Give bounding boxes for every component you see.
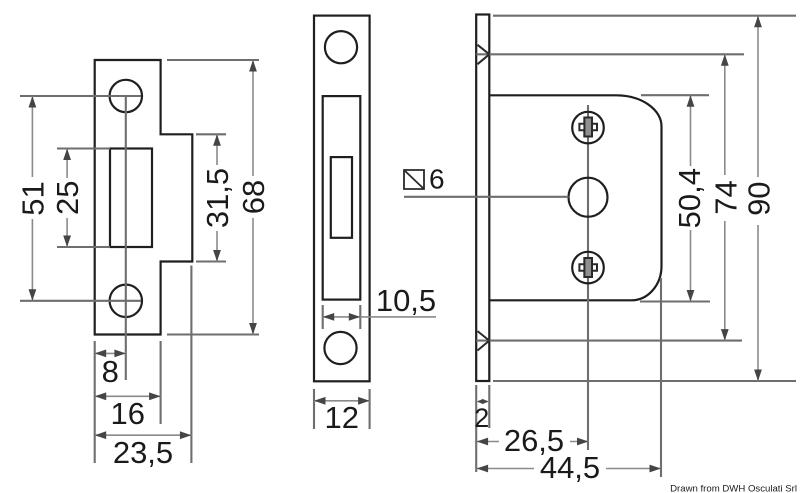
svg-text:8: 8 bbox=[102, 354, 119, 389]
svg-text:6: 6 bbox=[429, 164, 445, 195]
square-6 label bbox=[404, 170, 424, 189]
dim 8 line bbox=[95, 352, 126, 354]
strike plate outline bbox=[95, 60, 193, 335]
recess slot bbox=[323, 96, 361, 300]
ext bottom for 74 bbox=[476, 340, 742, 342]
ext rect right for 12 bbox=[369, 389, 371, 429]
dim 16 line bbox=[95, 395, 161, 397]
svg-text:10,5: 10,5 bbox=[376, 283, 436, 318]
dim 90 line bbox=[757, 16, 759, 177]
inner latch window bbox=[331, 157, 352, 238]
ext top for 74 bbox=[476, 53, 744, 55]
hole bottom bbox=[324, 332, 356, 364]
dim 2 arrows bbox=[478, 401, 488, 403]
center line bbox=[125, 96, 127, 380]
svg-text:68: 68 bbox=[236, 180, 271, 214]
ext plate left bottom bbox=[94, 341, 96, 463]
ext plate left bottom bbox=[475, 385, 477, 472]
svg-text:31,5: 31,5 bbox=[200, 168, 235, 228]
svg-text:90: 90 bbox=[742, 181, 777, 215]
svg-text:44,5: 44,5 bbox=[540, 450, 600, 485]
hole top bbox=[325, 31, 357, 63]
svg-text:2: 2 bbox=[474, 403, 489, 433]
dim 44,5 line bbox=[477, 468, 534, 470]
latch slot bbox=[110, 149, 152, 248]
dim 12 line bbox=[314, 400, 370, 402]
ext plate right short bbox=[488, 385, 490, 428]
svg-text:74: 74 bbox=[708, 180, 743, 214]
hole bottom bbox=[110, 285, 142, 317]
dim 51 line bbox=[31, 96, 33, 177]
svg-text:51: 51 bbox=[16, 181, 51, 215]
mark arrow top bbox=[478, 45, 490, 64]
ext tab right bottom bbox=[190, 266, 192, 464]
ext rect left for 12 bbox=[313, 389, 315, 429]
svg-text:12: 12 bbox=[324, 400, 358, 435]
ext slot right for 10,5 bbox=[359, 305, 361, 329]
leader line to spindle bbox=[404, 196, 569, 198]
ext line hole-bottom for 51 bbox=[20, 300, 141, 302]
dim 10,5 line bbox=[323, 316, 436, 318]
svg-text:23,5: 23,5 bbox=[113, 435, 173, 470]
screw bottom bbox=[572, 252, 604, 284]
ext plate right bottom bbox=[160, 341, 162, 424]
dim 25 line bbox=[66, 149, 68, 179]
faceplate edge-on bbox=[476, 15, 489, 382]
ext slot top for 25 bbox=[57, 147, 110, 149]
ext line hole-top for 51 bbox=[20, 95, 141, 97]
ext slot left for 10,5 bbox=[322, 305, 324, 329]
screw bottom cross bbox=[579, 258, 597, 277]
ext slot bottom for 25 bbox=[57, 246, 110, 248]
svg-text:50,4: 50,4 bbox=[672, 168, 707, 228]
lock body bbox=[489, 95, 661, 300]
ext body bottom for 50,4 bbox=[640, 300, 710, 302]
dim 50,4 line bbox=[690, 95, 692, 166]
ext plate top for 90 bbox=[493, 15, 796, 17]
ext tab top for 31,5 bbox=[196, 133, 226, 135]
ext body top for 50,4 bbox=[641, 94, 709, 96]
hole top bbox=[110, 80, 142, 112]
dim 26,5 line bbox=[477, 441, 499, 443]
dim 31,5 line bbox=[216, 134, 218, 165]
svg-text:25: 25 bbox=[50, 181, 85, 215]
svg-text:16: 16 bbox=[110, 396, 144, 431]
ext plate bottom for 68 bbox=[167, 333, 259, 335]
ext plate bottom for 90 bbox=[493, 380, 796, 382]
screw top cross bbox=[579, 118, 597, 137]
dim 74 line bbox=[724, 54, 726, 175]
screw top bbox=[572, 112, 604, 144]
dim 23,5 line bbox=[95, 434, 192, 436]
dim 68 line bbox=[252, 60, 254, 176]
spindle hole bbox=[569, 178, 608, 217]
faceplate side outline bbox=[314, 16, 370, 382]
mark arrow bottom bbox=[478, 331, 490, 350]
ext tab bottom for 31,5 bbox=[196, 260, 226, 262]
ext plate top for 68 bbox=[167, 59, 259, 61]
center line bbox=[587, 105, 589, 450]
ext body right bottom bbox=[660, 278, 662, 477]
svg-text:Drawn from DWH Osculati Srl: Drawn from DWH Osculati Srl bbox=[670, 484, 797, 493]
